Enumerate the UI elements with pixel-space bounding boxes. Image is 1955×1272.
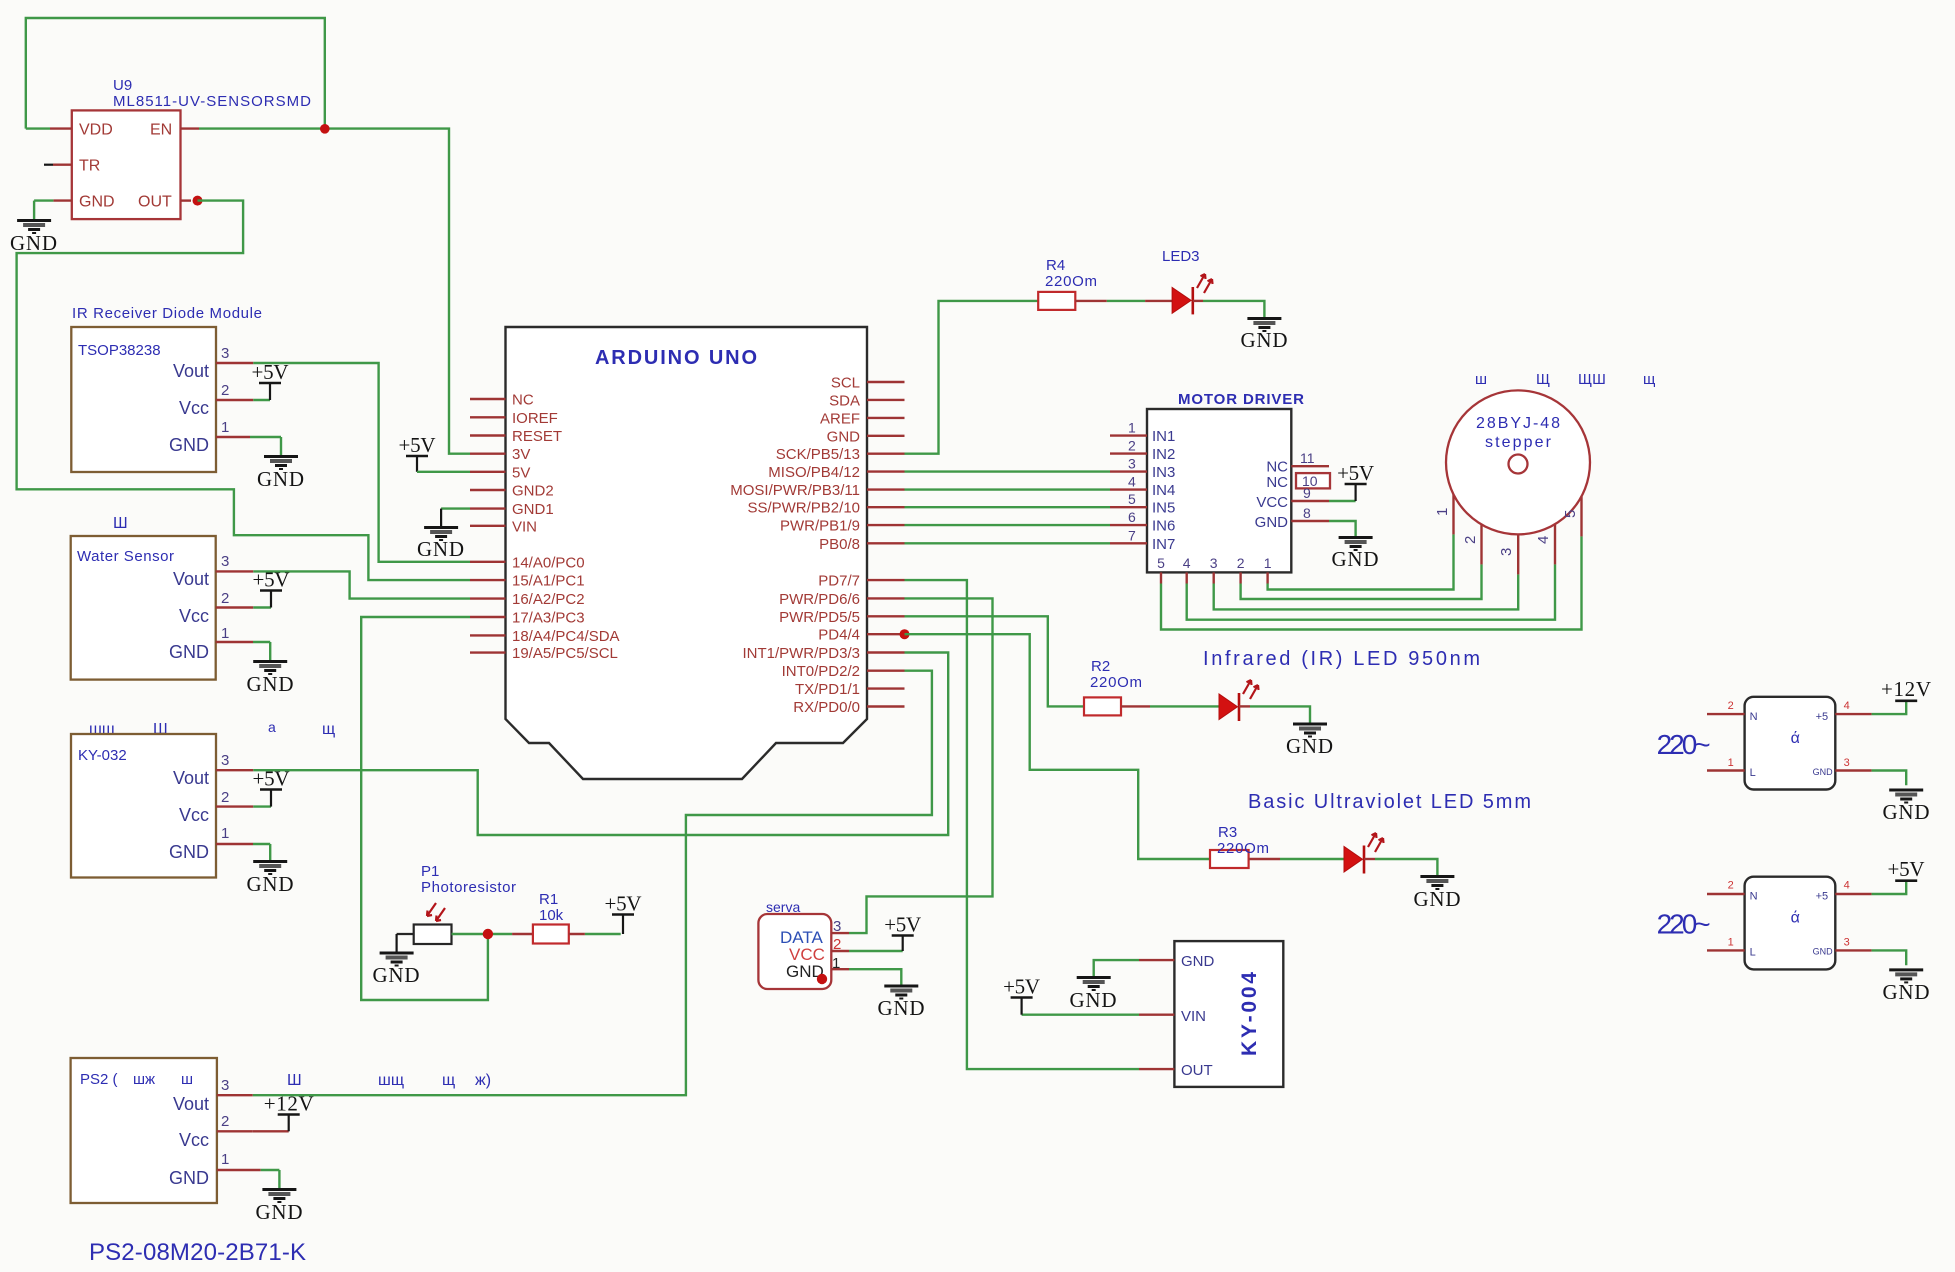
ground symbol below U9 [10, 221, 57, 256]
svg-text:R4: R4 [1046, 257, 1065, 274]
svg-text:3: 3 [221, 1077, 229, 1094]
svg-text:PWR/PB1/9: PWR/PB1/9 [780, 518, 860, 535]
Arduino right pin labels [730, 375, 860, 717]
svg-text:2: 2 [221, 1113, 229, 1130]
power +5V at MOTOR DRIVER VCC [1337, 461, 1374, 501]
wire IR LED to ground [1239, 706, 1310, 722]
wire P1 left lead to ground [397, 934, 414, 952]
svg-text:Vcc: Vcc [179, 606, 209, 626]
svg-text:a: a [268, 719, 276, 735]
svg-text:1: 1 [221, 1151, 229, 1168]
wire KY-004 OUT to Arduino PD7/7 [905, 580, 1140, 1069]
svg-text:ЩШ: ЩШ [1578, 371, 1606, 388]
IC U9 ML8511-UV-SENSORSMD [72, 77, 311, 219]
svg-text:Щ: Щ [1536, 371, 1550, 388]
svg-text:+12V: +12V [264, 1092, 314, 1116]
svg-text:5: 5 [1128, 491, 1136, 507]
svg-text:1: 1 [1728, 937, 1734, 949]
svg-text:11: 11 [1300, 450, 1315, 466]
svg-text:+5V: +5V [253, 767, 290, 791]
svg-text:TX/PD1/1: TX/PD1/1 [795, 681, 860, 698]
svg-text:MOTOR DRIVER: MOTOR DRIVER [1178, 391, 1304, 408]
svg-text:+12V: +12V [1881, 677, 1931, 701]
ground symbol below serva [878, 986, 925, 1020]
wire Water Sensor Vout to Arduino A2 [253, 571, 470, 598]
svg-text:2: 2 [221, 590, 229, 607]
module TSOP38238 (IR receiver) [71, 327, 229, 472]
Water Sensor pin 1 stub [216, 642, 271, 660]
svg-text:3: 3 [1498, 548, 1515, 556]
svg-text:8: 8 [1303, 505, 1311, 521]
label PS2-08M20-2B71-K [89, 1239, 306, 1266]
PS2 pin 2 stub [217, 1130, 289, 1132]
svg-text:SS/PWR/PB2/10: SS/PWR/PB2/10 [747, 500, 860, 517]
svg-text:+5V: +5V [884, 913, 921, 937]
svg-text:IN3: IN3 [1152, 464, 1175, 481]
svg-text:IN7: IN7 [1152, 536, 1175, 553]
svg-text:VDD: VDD [79, 122, 113, 139]
svg-text:GND: GND [257, 467, 304, 491]
svg-text:1: 1 [1264, 555, 1272, 571]
svg-text:ш: ш [1475, 371, 1487, 388]
svg-text:3: 3 [221, 345, 229, 362]
svg-text:GND: GND [247, 872, 294, 896]
svg-text:IN2: IN2 [1152, 446, 1175, 463]
wire 17/A3/PC3 to P1 junction [361, 617, 488, 1000]
svg-text:IN5: IN5 [1152, 500, 1175, 517]
ground symbol below Water Sensor [247, 662, 294, 697]
Arduino left pin stubs [470, 399, 506, 653]
svg-text:Vcc: Vcc [179, 1130, 209, 1150]
svg-text:220Om: 220Om [1217, 840, 1269, 857]
wire MOTOR DRIVER pin 3 to stepper pin 3 [1214, 534, 1519, 609]
TSOP pin 3 stub [216, 362, 253, 364]
ground symbol at KY-004 GND [1070, 978, 1117, 1013]
svg-text:15/A1/PC1: 15/A1/PC1 [512, 573, 585, 590]
MOTOR DRIVER pin 9 VCC [1256, 485, 1355, 511]
svg-text:RESET: RESET [512, 428, 562, 445]
svg-text:Ш: Ш [287, 1072, 302, 1089]
svg-text:Photoresistor: Photoresistor [421, 879, 516, 896]
svg-text:6: 6 [1128, 509, 1136, 525]
junction U9 OUT node [193, 196, 203, 206]
ground symbol below PS2 [256, 1190, 303, 1225]
svg-text:GND: GND [373, 963, 420, 987]
wire SS/10 to IN5 [905, 506, 1111, 508]
svg-text:IOREF: IOREF [512, 410, 558, 427]
svg-text:ш: ш [181, 1071, 193, 1088]
U9 pin EN stub [181, 127, 200, 129]
svg-text:GND: GND [79, 194, 115, 211]
wire R1 to +5V [569, 933, 621, 935]
LED D-UV ultraviolet [1344, 833, 1384, 874]
power +12V at PSU1 output [1881, 677, 1931, 701]
svg-text:GND: GND [256, 1200, 303, 1224]
svg-text:GND: GND [1883, 980, 1930, 1004]
ground symbol below LED3 [1241, 319, 1288, 353]
svg-text:GND: GND [1255, 514, 1289, 531]
svg-text:4: 4 [1128, 474, 1136, 490]
svg-text:+5V: +5V [605, 892, 642, 916]
svg-text:GND: GND [1070, 988, 1117, 1012]
ground symbol below TSOP [257, 457, 304, 492]
wire P1 to R1 [452, 933, 533, 935]
svg-text:P1: P1 [421, 863, 439, 880]
svg-text:serva: serva [766, 899, 800, 915]
power +5V at PSU2 output [1888, 857, 1925, 881]
svg-text:R3: R3 [1218, 824, 1237, 841]
svg-text:GND1: GND1 [512, 501, 554, 518]
LED D-IR infrared [1219, 680, 1259, 721]
svg-text:+5V: +5V [1003, 975, 1040, 999]
svg-text:220~: 220~ [1657, 909, 1711, 940]
KY-004 pin GND stub [1094, 960, 1175, 976]
ground symbol below UV LED [1414, 877, 1461, 912]
KY-032 pin 3 stub [216, 769, 253, 771]
svg-text:GND: GND [169, 435, 209, 455]
svg-text:шщ: шщ [378, 1072, 404, 1089]
svg-text:SCL: SCL [831, 375, 860, 392]
svg-text:GND: GND [1332, 547, 1379, 571]
svg-text:2: 2 [1128, 438, 1136, 454]
motor M1 28BYJ-48 stepper [1446, 390, 1590, 534]
module PS2 sensor [71, 1058, 230, 1203]
svg-text:220~: 220~ [1657, 729, 1711, 760]
U9 pin OUT stub [181, 199, 192, 201]
IC MOTOR DRIVER [1147, 391, 1304, 572]
TSOP pin 1 stub [216, 437, 281, 455]
svg-text:Vout: Vout [173, 768, 209, 788]
svg-text:GND: GND [1181, 953, 1215, 970]
svg-text:Vcc: Vcc [179, 398, 209, 418]
garbled labels right of PS2 [287, 1072, 491, 1089]
svg-text:4: 4 [1844, 700, 1850, 712]
svg-text:OUT: OUT [1181, 1062, 1213, 1079]
svg-text:1: 1 [221, 825, 229, 842]
svg-text:Ш: Ш [113, 515, 128, 532]
module KY-032 [71, 734, 229, 878]
svg-text:AREF: AREF [820, 410, 860, 427]
svg-text:N: N [1750, 711, 1758, 723]
svg-text:1: 1 [1728, 757, 1734, 769]
svg-text:4: 4 [1535, 536, 1552, 544]
svg-text:+5: +5 [1816, 711, 1829, 723]
wire MOTOR DRIVER pin 2 to stepper pin 2 [1241, 524, 1482, 599]
MOTOR DRIVER pin 8 GND [1255, 505, 1356, 536]
svg-text:19/A5/PC5/SCL: 19/A5/PC5/SCL [512, 645, 618, 662]
serva pin 2 VCC stub [831, 950, 902, 952]
ground symbol at PSU2 [1883, 970, 1930, 1004]
svg-text:4: 4 [1844, 880, 1850, 892]
PS2 pin 3 stub [217, 1094, 253, 1096]
svg-text:IN4: IN4 [1152, 482, 1175, 499]
module Water Sensor [71, 536, 230, 680]
svg-text:PS2-08M20-2B71-K: PS2-08M20-2B71-K [89, 1239, 306, 1266]
svg-text:GND: GND [878, 996, 925, 1020]
svg-text:MOSI/PWR/PB3/11: MOSI/PWR/PB3/11 [730, 482, 860, 499]
svg-text:L: L [1750, 767, 1756, 779]
svg-text:INT1/PWR/PD3/3: INT1/PWR/PD3/3 [742, 645, 860, 662]
svg-text:5: 5 [1562, 510, 1579, 518]
svg-text:щ: щ [1643, 371, 1655, 388]
Water Sensor pin 3 stub [216, 570, 254, 572]
ground symbol below KY-032 [247, 862, 294, 897]
svg-text:PD4/4: PD4/4 [818, 627, 860, 644]
svg-text:GND: GND [1286, 734, 1333, 758]
svg-text:+5V: +5V [1337, 461, 1374, 485]
wire LED3 to ground [1193, 301, 1265, 317]
wire MOTOR DRIVER pin 5 to stepper pin 5 [1161, 496, 1582, 629]
svg-text:GND2: GND2 [512, 483, 554, 500]
svg-text:Basic Ultraviolet LED 5mm: Basic Ultraviolet LED 5mm [1248, 791, 1531, 813]
svg-text:PWR/PD6/6: PWR/PD6/6 [779, 591, 860, 608]
wire UV LED to ground [1364, 859, 1437, 875]
svg-text:IR Receiver Diode Module: IR Receiver Diode Module [72, 305, 262, 322]
svg-text:INT0/PD2/2: INT0/PD2/2 [782, 663, 860, 680]
svg-text:GND: GND [417, 537, 464, 561]
junction PD4 node [900, 629, 910, 639]
resistor R3 220Om [1210, 824, 1269, 868]
svg-text:SDA: SDA [829, 392, 860, 409]
TSOP pin 2 stub [216, 399, 270, 401]
svg-text:10k: 10k [539, 907, 564, 924]
svg-text:IN1: IN1 [1152, 428, 1175, 445]
svg-text:3: 3 [221, 752, 229, 769]
KY-004 pin VIN stub [1022, 1014, 1175, 1016]
svg-text:28BYJ-48: 28BYJ-48 [1476, 415, 1560, 432]
svg-text:ж): ж) [475, 1072, 491, 1089]
stepper pin numbers 1-5 [1434, 508, 1579, 556]
svg-text:N: N [1750, 891, 1758, 903]
svg-text:+5V: +5V [1888, 857, 1925, 881]
U9 pin GND stub [34, 201, 72, 219]
wire PWR/PB1/9 to IN6 [905, 524, 1111, 526]
svg-text:220Om: 220Om [1090, 674, 1142, 691]
svg-text:220Om: 220Om [1045, 273, 1097, 290]
Water Sensor pin 2 stub [216, 606, 271, 608]
svg-text:2: 2 [221, 789, 229, 806]
serva pin 3 DATA stub [831, 932, 849, 934]
svg-text:R2: R2 [1091, 658, 1110, 675]
MOTOR DRIVER pin 11 NC [1266, 450, 1329, 476]
svg-text:GND: GND [10, 231, 57, 255]
wire GND1 to ground [441, 509, 470, 526]
wire MOSI/11 to IN4 [905, 488, 1111, 490]
svg-text:PD7/7: PD7/7 [818, 573, 860, 590]
svg-text:1: 1 [221, 419, 229, 436]
resistor R4 220Om [1038, 257, 1097, 310]
svg-text:щ: щ [322, 721, 335, 738]
svg-text:+5V: +5V [252, 360, 289, 384]
svg-text:17/A3/PC3: 17/A3/PC3 [512, 610, 585, 627]
svg-text:EN: EN [150, 122, 172, 139]
power +12V at PS2 [264, 1092, 314, 1132]
svg-text:3V: 3V [512, 446, 530, 463]
wire VDD-EN top loop [26, 18, 325, 129]
svg-text:NC: NC [1266, 474, 1288, 491]
label Basic Ultraviolet LED 5mm [1248, 791, 1531, 813]
wire MOTOR DRIVER pin 4 to stepper pin 4 [1187, 524, 1555, 619]
svg-text:GND: GND [1241, 328, 1288, 352]
svg-text:5: 5 [1157, 555, 1165, 571]
ground symbol below MOTOR DRIVER [1332, 538, 1379, 572]
wire U9 OUT to Arduino A1 [17, 201, 470, 580]
svg-text:GND: GND [247, 672, 294, 696]
power +5V at R1 [605, 892, 642, 935]
svg-text:SCK/PB5/13: SCK/PB5/13 [776, 446, 860, 463]
wire PB0/8 to IN7 [905, 542, 1111, 544]
svg-text:U9: U9 [113, 77, 132, 94]
svg-text:Water Sensor: Water Sensor [77, 548, 174, 565]
MOTOR DRIVER pins IN1-IN7 [1110, 420, 1175, 553]
svg-text:GND: GND [169, 642, 209, 662]
serva pin 1 GND stub [831, 969, 901, 984]
svg-text:GND: GND [827, 428, 861, 445]
svg-text:OUT: OUT [138, 194, 172, 211]
svg-text:ARDUINO UNO: ARDUINO UNO [595, 347, 757, 369]
svg-text:9: 9 [1303, 485, 1311, 501]
wire PS2 Vout to Arduino PD2 [253, 671, 932, 1095]
MOTOR DRIVER pin 10 NC [1266, 473, 1330, 491]
svg-text:RX/PD0/0: RX/PD0/0 [793, 699, 860, 716]
svg-text:PWR/PD5/5: PWR/PD5/5 [779, 609, 860, 626]
svg-text:GND: GND [169, 842, 209, 862]
wire R2 to IR LED [1121, 705, 1219, 707]
MOTOR DRIVER bottom pins 5-1 [1157, 555, 1272, 584]
svg-text:Infrared (IR) LED 950nm: Infrared (IR) LED 950nm [1203, 648, 1480, 670]
svg-text:Vout: Vout [173, 1094, 209, 1114]
svg-text:3: 3 [1210, 555, 1218, 571]
ground symbol at Arduino GND1 [417, 528, 464, 562]
svg-text:шж: шж [133, 1071, 155, 1088]
svg-text:LED3: LED3 [1162, 248, 1200, 265]
label IR Receiver Diode Module [72, 305, 262, 322]
svg-text:1: 1 [1128, 420, 1136, 436]
U9 pin VDD stub [26, 127, 72, 129]
wire MOTOR DRIVER pin 1 to stepper pin 1 [1268, 494, 1454, 589]
svg-text:KY-032: KY-032 [78, 747, 127, 764]
module KY-004 [1174, 941, 1283, 1087]
power +5V at serva [884, 913, 921, 952]
KY-004 pin OUT stub [1139, 1068, 1174, 1070]
wire PWR/PD5/5 to R2 [905, 616, 1085, 706]
connector serva [758, 899, 841, 989]
KY-032 pin 1 stub [216, 844, 270, 860]
garbled labels above KY-032 [89, 719, 335, 738]
svg-text:2: 2 [1728, 880, 1734, 892]
svg-text:GND: GND [1883, 800, 1930, 824]
power module PSU2 (220V to +5V) [1657, 877, 1907, 970]
svg-text:2: 2 [1728, 700, 1734, 712]
svg-text:GND: GND [1414, 887, 1461, 911]
svg-text:+5V: +5V [253, 568, 290, 592]
junction P1-R1 node [483, 929, 493, 939]
svg-text:NC: NC [512, 392, 534, 409]
svg-text:1: 1 [221, 625, 229, 642]
ground symbol below P1 [373, 953, 420, 987]
svg-text:stepper: stepper [1485, 434, 1552, 451]
power +5V at TSOP [252, 360, 289, 400]
wire R3 to UV LED [1249, 858, 1344, 860]
Arduino right pin stubs [867, 382, 905, 707]
wire MISO/12 to IN3 [905, 470, 1111, 472]
power +5V at Arduino 5V pin [399, 433, 471, 472]
garbled label above Water Sensor [113, 515, 128, 532]
svg-text:+5V: +5V [399, 433, 436, 457]
resistor R1 10k [533, 891, 569, 944]
Arduino left pin labels [512, 392, 620, 663]
svg-text:5V: 5V [512, 464, 530, 481]
svg-text:Vout: Vout [173, 361, 209, 381]
svg-text:TR: TR [79, 158, 100, 175]
power +5V at KY-032 [253, 767, 290, 807]
svg-text:1: 1 [1434, 508, 1451, 516]
U9 pin TR stub (no connect) [44, 164, 72, 166]
garbled labels above stepper [1475, 371, 1655, 388]
svg-text:Vcc: Vcc [179, 805, 209, 825]
svg-text:3: 3 [1128, 456, 1136, 472]
svg-text:2: 2 [1237, 555, 1245, 571]
LED LED3 [1162, 248, 1213, 314]
svg-text:+5: +5 [1816, 891, 1829, 903]
svg-text:2: 2 [221, 382, 229, 399]
IC ARDUINO UNO [506, 327, 868, 779]
wire TSOP Vout to Arduino A0 [253, 363, 470, 562]
wire KY-032 Vout to Arduino PD3 [253, 653, 948, 836]
svg-text:3: 3 [1844, 937, 1850, 949]
svg-text:L: L [1750, 947, 1756, 959]
svg-text:ML8511-UV-SENSORSMD: ML8511-UV-SENSORSMD [113, 93, 311, 110]
ground symbol at PSU1 [1883, 790, 1930, 824]
svg-text:4: 4 [1183, 555, 1191, 571]
svg-text:VIN: VIN [1181, 1008, 1206, 1025]
svg-text:ά: ά [1791, 910, 1800, 927]
svg-text:VIN: VIN [512, 518, 537, 535]
resistor R2 220Om [1084, 658, 1142, 715]
svg-text:щ: щ [442, 1072, 455, 1089]
svg-text:16/A2/PC2: 16/A2/PC2 [512, 591, 585, 608]
svg-text:GND: GND [1813, 947, 1834, 957]
PS2 pin 1 stub [217, 1170, 280, 1188]
svg-text:18/A4/PC4/SDA: 18/A4/PC4/SDA [512, 628, 620, 645]
svg-text:ά: ά [1791, 730, 1800, 747]
svg-text:TSOP38238: TSOP38238 [78, 342, 161, 359]
junction serva corner node [817, 974, 827, 984]
wire PD4/4 to R3 [905, 634, 1211, 859]
photoresistor P1 [414, 863, 516, 944]
power module PSU1 (220V to +12V) [1657, 697, 1907, 790]
svg-text:2: 2 [1462, 536, 1479, 544]
wire serva DATA to Arduino PWR/PD6/6 [849, 598, 993, 933]
svg-text:GND: GND [1813, 767, 1834, 777]
svg-text:GND: GND [169, 1168, 209, 1188]
svg-text:VCC: VCC [1256, 494, 1288, 511]
wire R4 to LED3 [1075, 300, 1172, 302]
svg-text:R1: R1 [539, 891, 558, 908]
svg-text:3: 3 [221, 553, 229, 570]
junction EN node [320, 124, 330, 134]
label Infrared (IR) LED 950nm [1203, 648, 1480, 670]
KY-032 pin 2 stub [216, 805, 271, 807]
power +5V at Water Sensor [253, 568, 290, 608]
power +5V at KY-004 [1003, 975, 1040, 1015]
svg-text:MISO/PB4/12: MISO/PB4/12 [768, 464, 860, 481]
ground symbol below IR LED [1286, 724, 1333, 758]
wire SCK/PB5/13 to R4 [905, 301, 1039, 454]
svg-text:7: 7 [1128, 527, 1136, 543]
svg-text:PB0/8: PB0/8 [819, 536, 860, 553]
svg-text:Vout: Vout [173, 569, 209, 589]
